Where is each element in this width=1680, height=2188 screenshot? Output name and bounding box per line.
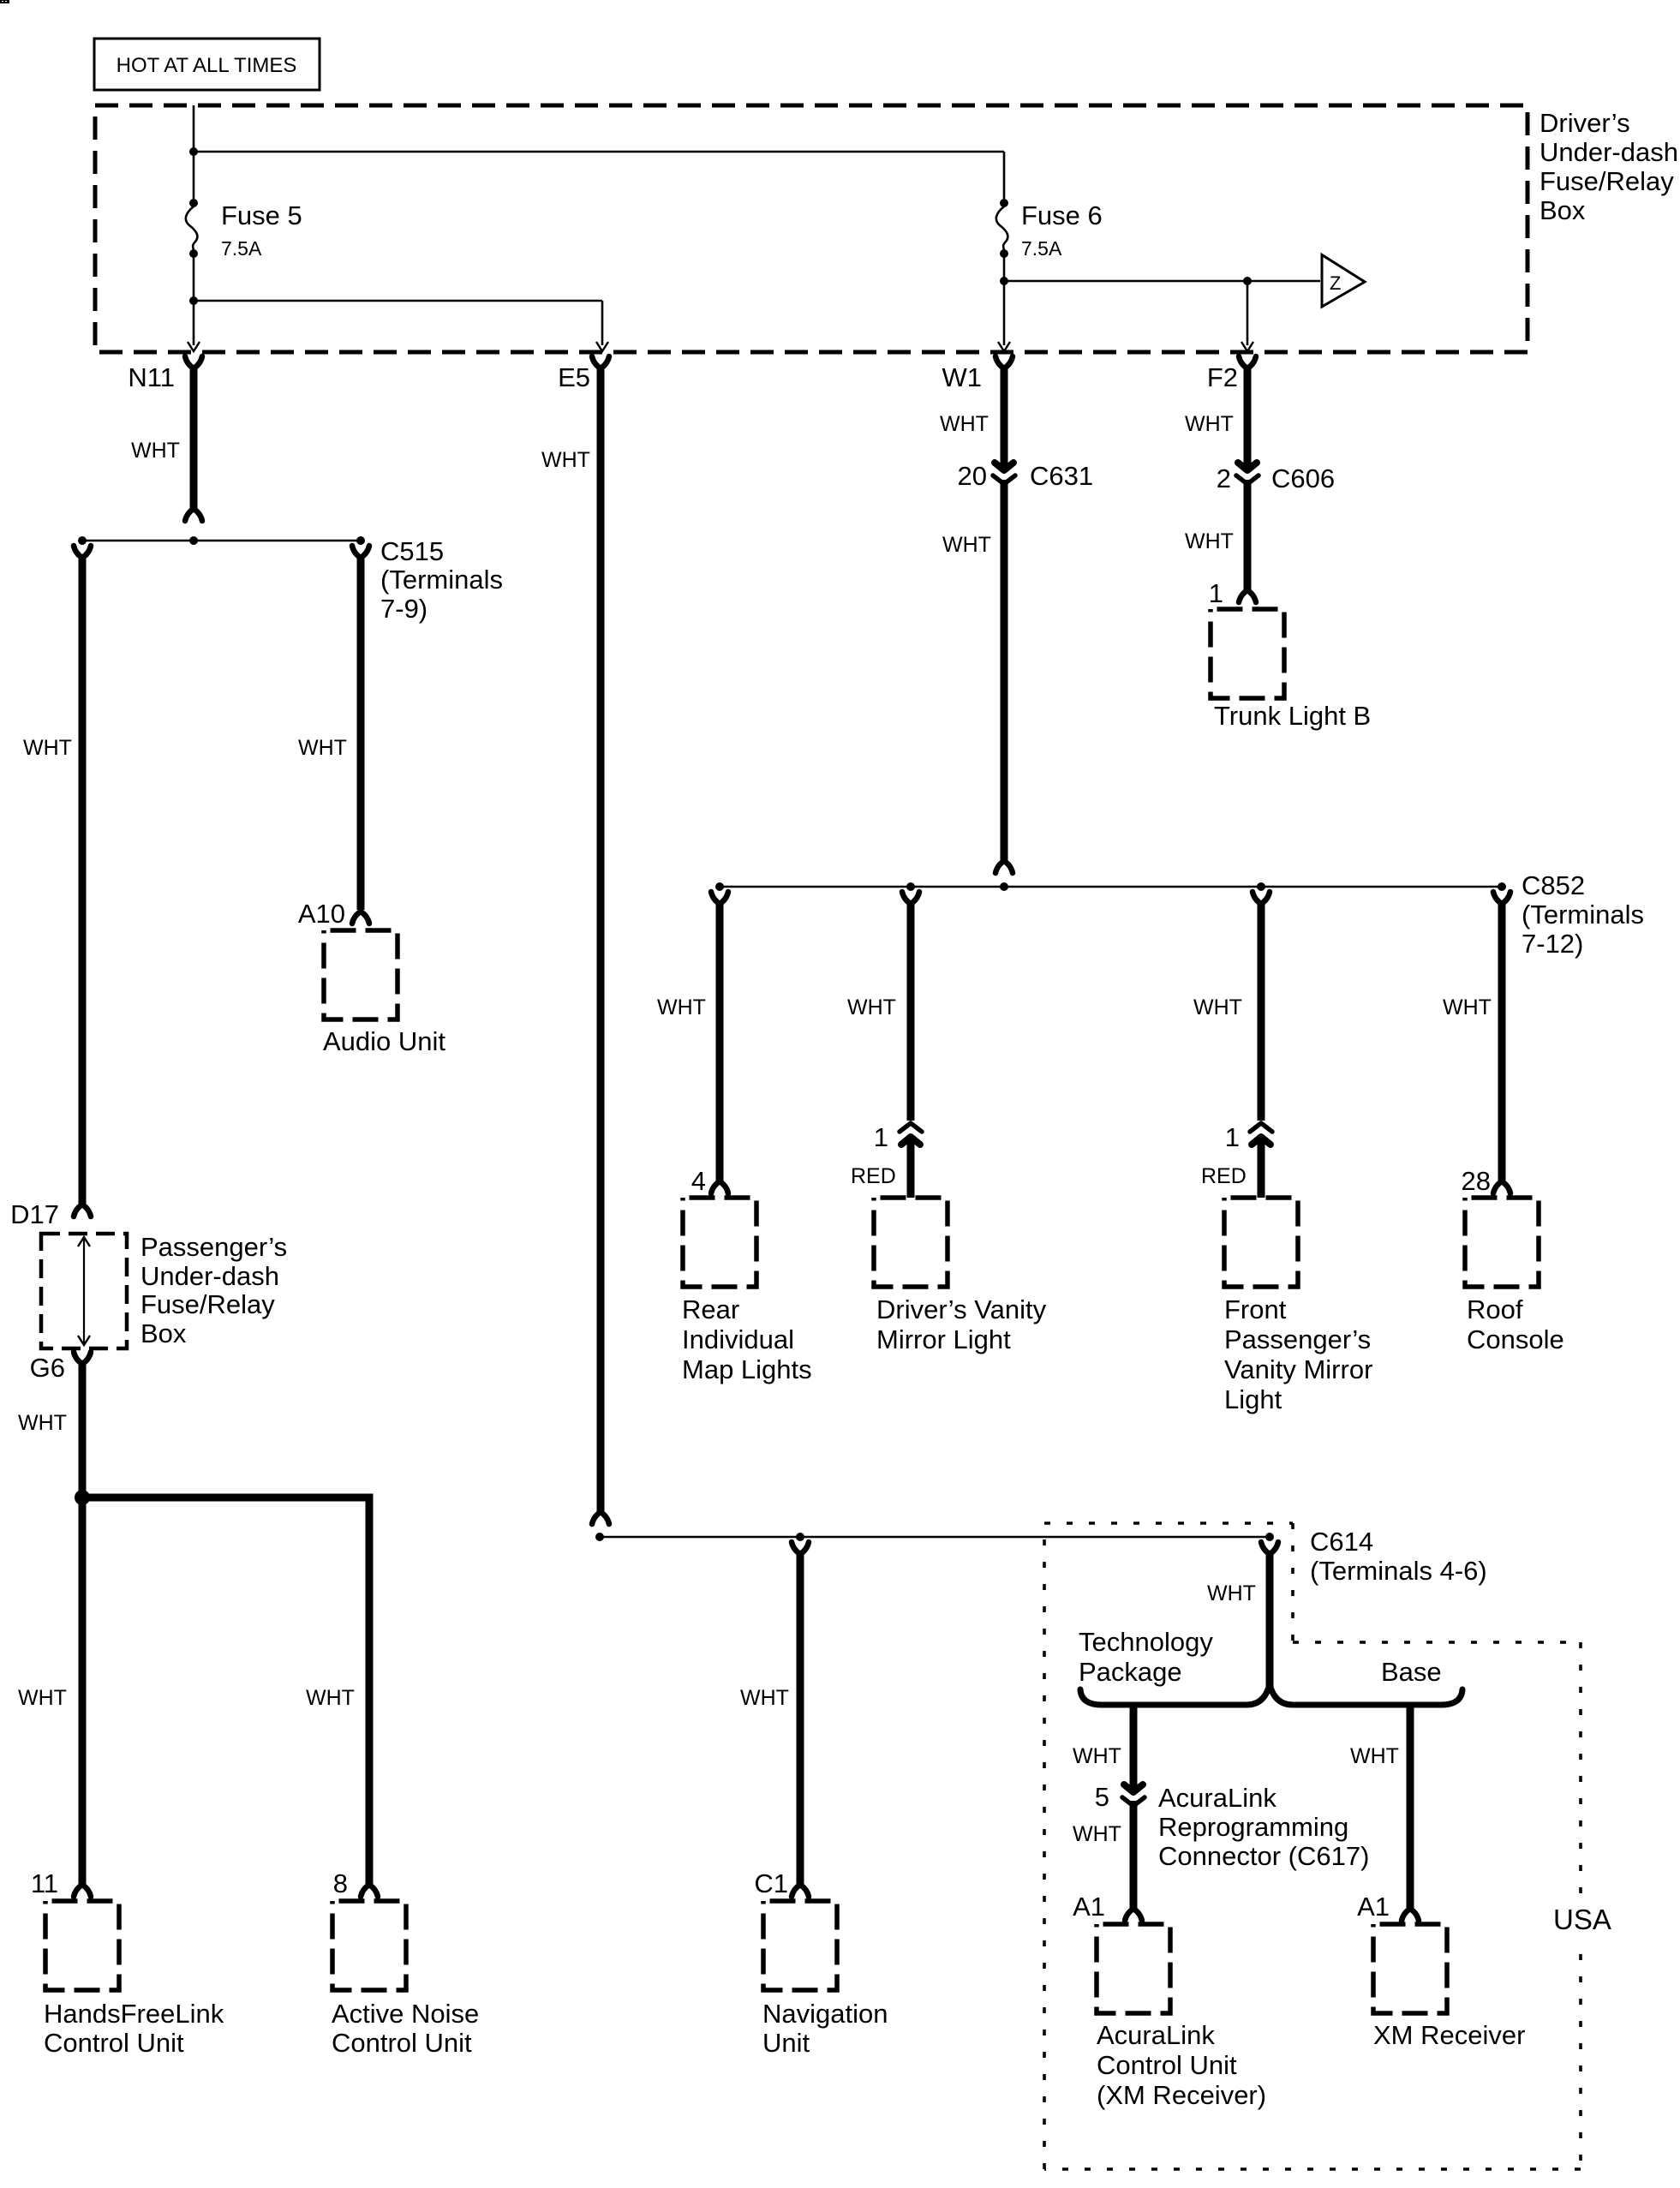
label: HOT AT ALL TIMES bbox=[94, 39, 320, 90]
node: rear map light branch bbox=[715, 882, 724, 891]
label: WHT (G6) bbox=[18, 1411, 67, 1435]
wire: junction over to Z arrow bbox=[1004, 280, 1320, 283]
wire: WHT to audio unit bbox=[352, 557, 369, 924]
node: driver vanity branch bbox=[906, 882, 915, 891]
node: C515 branch junction bbox=[356, 536, 365, 545]
svg-text:20: 20 bbox=[958, 461, 987, 491]
svg-text:Control Unit: Control Unit bbox=[44, 2028, 184, 2058]
node: N11 junction bbox=[189, 536, 198, 545]
wire: W1 WHT down to C631 bbox=[1001, 367, 1008, 468]
svg-text:7.5A: 7.5A bbox=[1021, 237, 1062, 260]
label: Driver's Under-dash Fuse/Relay Box bbox=[1540, 108, 1678, 225]
label: WHT (E5) bbox=[541, 448, 590, 472]
connector C614 (Terminals 4-6) bbox=[1261, 1527, 1487, 1586]
svg-text:Active Noise: Active Noise bbox=[332, 1999, 479, 2029]
svg-text:WHT: WHT bbox=[657, 995, 706, 1019]
svg-text:8: 8 bbox=[333, 1868, 348, 1898]
svg-text:Technology: Technology bbox=[1079, 1627, 1213, 1657]
wire: branch to active noise control bbox=[82, 1498, 378, 1897]
connector pin 1 (front vanity) bbox=[1225, 1122, 1272, 1152]
svg-text:1: 1 bbox=[1225, 1122, 1240, 1152]
wire: WHT down to D17 bbox=[74, 546, 91, 1217]
wire: bus feed down to Fuse 5 bbox=[193, 105, 195, 199]
label: WHT (active noise) bbox=[306, 1686, 355, 1710]
wire: down to E5 exit bbox=[596, 301, 608, 351]
node: front vanity branch bbox=[1257, 882, 1265, 891]
svg-text:WHT: WHT bbox=[1350, 1744, 1399, 1768]
wire: WHT to rear map lights bbox=[711, 892, 728, 1193]
wire: lower accessory bus bbox=[600, 1536, 1270, 1539]
wire: down to F2 exit bbox=[1241, 281, 1253, 351]
wire: interior lamp bus bbox=[716, 886, 1505, 888]
svg-text:WHT: WHT bbox=[298, 736, 347, 760]
connector C631 pin 20 bbox=[958, 461, 1094, 491]
component: AcuraLink Control Unit (XM Receiver) bbox=[1097, 1924, 1266, 2110]
svg-text:AcuraLink: AcuraLink bbox=[1158, 1783, 1276, 1813]
label: WHT (handsfreelink) bbox=[18, 1686, 67, 1710]
svg-text:C1: C1 bbox=[754, 1868, 788, 1898]
svg-text:WHT: WHT bbox=[1073, 1822, 1121, 1846]
Driver's under-dash fuse/relay box (dashed) bbox=[95, 105, 1528, 352]
svg-text:Under-dash: Under-dash bbox=[1540, 137, 1678, 167]
svg-text:HOT AT ALL TIMES: HOT AT ALL TIMES bbox=[117, 54, 297, 77]
node: junction to F2 and Z bbox=[1000, 277, 1008, 285]
svg-text:Mirror Light: Mirror Light bbox=[876, 1324, 1011, 1354]
svg-text:D17: D17 bbox=[10, 1199, 59, 1229]
pin A10 bbox=[298, 899, 345, 929]
svg-text:Map Lights: Map Lights bbox=[682, 1354, 812, 1384]
svg-text:WHT: WHT bbox=[740, 1686, 789, 1710]
svg-text:Driver’s: Driver’s bbox=[1540, 108, 1630, 138]
pin D17 bbox=[10, 1199, 59, 1229]
svg-text:WHT: WHT bbox=[18, 1411, 67, 1435]
node: E5 end junction bbox=[595, 1533, 604, 1541]
svg-text:Front: Front bbox=[1224, 1294, 1287, 1324]
svg-text:USA: USA bbox=[1553, 1904, 1611, 1935]
svg-text:Rear: Rear bbox=[682, 1294, 739, 1324]
svg-text:A1: A1 bbox=[1357, 1892, 1390, 1922]
component: XM Receiver bbox=[1373, 1924, 1525, 2050]
svg-text:Fuse/Relay: Fuse/Relay bbox=[140, 1289, 275, 1319]
label: WHT (C614) bbox=[1207, 1581, 1256, 1605]
wire: Fuse 6 output down to W1 bbox=[998, 254, 1010, 351]
component: HandsFreeLink Control Unit bbox=[44, 1901, 224, 2058]
svg-text:N11: N11 bbox=[128, 362, 175, 392]
svg-text:F2: F2 bbox=[1207, 362, 1238, 392]
svg-text:Z: Z bbox=[1330, 272, 1341, 294]
label: WHT (left branch) bbox=[23, 736, 72, 760]
component: Roof Console bbox=[1465, 1198, 1564, 1354]
connector C617 pin 5 (AcuraLink Reprogramming Connector) bbox=[1095, 1782, 1370, 1871]
svg-text:1: 1 bbox=[1209, 578, 1223, 608]
node: junction to active noise control bbox=[75, 1490, 90, 1505]
label: WHT (front vanity) bbox=[1193, 995, 1242, 1019]
svg-text:WHT: WHT bbox=[1207, 1581, 1256, 1605]
node: junction to E5 bbox=[189, 296, 198, 305]
svg-text:RED: RED bbox=[851, 1164, 896, 1188]
fuse F6 (Fuse 6 7.5A) bbox=[996, 199, 1103, 260]
component: Passenger's Under-dash Fuse/Relay Box bbox=[41, 1234, 127, 1348]
svg-text:Fuse 5: Fuse 5 bbox=[221, 200, 302, 230]
label: Passenger's Under-dash Fuse/Relay Box bbox=[140, 1232, 287, 1348]
node: roof console branch (C852) bbox=[1498, 882, 1506, 891]
svg-text:A10: A10 bbox=[298, 899, 345, 929]
svg-text:Audio Unit: Audio Unit bbox=[323, 1026, 445, 1056]
pin 8 bbox=[333, 1868, 348, 1898]
svg-text:Passenger’s: Passenger’s bbox=[1224, 1324, 1371, 1354]
wire: WHT to XM receiver bbox=[1402, 1705, 1419, 1921]
pin A1 (acuralink) bbox=[1073, 1892, 1105, 1922]
brace: harness split bbox=[1080, 1684, 1462, 1705]
node: bus junction at Fuse 5 column bbox=[189, 147, 198, 156]
svg-text:Individual: Individual bbox=[682, 1324, 794, 1354]
svg-text:Control Unit: Control Unit bbox=[332, 2028, 472, 2058]
wire: N11 WHT down bbox=[185, 367, 202, 521]
node: W1 feed junction bbox=[1000, 882, 1008, 891]
svg-text:C852: C852 bbox=[1522, 870, 1585, 900]
component: Active Noise Control Unit bbox=[332, 1901, 479, 2058]
label: WHT (xm) bbox=[1350, 1744, 1399, 1768]
label: WHT (navigation) bbox=[740, 1686, 789, 1710]
svg-text:Base: Base bbox=[1381, 1657, 1442, 1687]
svg-text:A1: A1 bbox=[1073, 1892, 1105, 1922]
svg-text:WHT: WHT bbox=[1443, 995, 1492, 1019]
label: Technology Package bbox=[1079, 1627, 1213, 1687]
svg-text:28: 28 bbox=[1462, 1166, 1491, 1196]
label: Base bbox=[1381, 1657, 1442, 1687]
svg-text:WHT: WHT bbox=[23, 736, 72, 760]
svg-text:Control Unit: Control Unit bbox=[1097, 2050, 1237, 2080]
svg-text:WHT: WHT bbox=[942, 533, 991, 557]
wire: Fuse 5 output down to N11 bbox=[188, 254, 200, 351]
wire: WHT to front vanity connector bbox=[1253, 892, 1270, 1121]
svg-text:Fuse/Relay: Fuse/Relay bbox=[1540, 166, 1674, 196]
svg-text:Trunk Light B: Trunk Light B bbox=[1214, 701, 1371, 731]
wire: WHT C631 down to lamp bus bbox=[995, 480, 1013, 873]
svg-text:AcuraLink: AcuraLink bbox=[1097, 2020, 1215, 2050]
label: WHT (rear map lights) bbox=[657, 995, 706, 1019]
label: WHT (driver vanity) bbox=[847, 995, 896, 1019]
svg-text:(Terminals: (Terminals bbox=[380, 565, 503, 595]
svg-text:HandsFreeLink: HandsFreeLink bbox=[44, 1999, 224, 2029]
svg-text:E5: E5 bbox=[558, 362, 590, 392]
wire: RED into front vanity light bbox=[1258, 1139, 1265, 1198]
svg-text:1: 1 bbox=[874, 1122, 888, 1152]
pin 28 bbox=[1462, 1166, 1491, 1196]
svg-text:7-9): 7-9) bbox=[380, 594, 427, 624]
label: WHT (N11) bbox=[131, 439, 180, 463]
svg-text:WHT: WHT bbox=[541, 448, 590, 472]
component: Driver's Vanity Mirror Light bbox=[874, 1198, 1047, 1354]
terminal W1 bbox=[942, 356, 1013, 392]
wire: WHT into acuralink control unit bbox=[1125, 1801, 1142, 1921]
svg-text:11: 11 bbox=[31, 1868, 58, 1898]
svg-text:(Terminals: (Terminals bbox=[1522, 900, 1644, 930]
svg-text:C606: C606 bbox=[1271, 463, 1335, 493]
wire: WHT to reprogramming connector bbox=[1130, 1705, 1138, 1789]
svg-text:(Terminals 4-6): (Terminals 4-6) bbox=[1310, 1556, 1487, 1586]
svg-text:C631: C631 bbox=[1030, 461, 1093, 491]
label: WHT (C515 branch) bbox=[298, 736, 347, 760]
connector C606 pin 2 bbox=[1217, 463, 1335, 493]
label: RED (front vanity) bbox=[1201, 1164, 1247, 1188]
svg-text:Light: Light bbox=[1224, 1384, 1282, 1414]
wire: junction over to E5 exit bbox=[194, 300, 602, 302]
svg-text:Fuse 6: Fuse 6 bbox=[1021, 200, 1103, 230]
pin 11 bbox=[31, 1868, 58, 1898]
wire: WHT to roof console bbox=[1493, 903, 1510, 1193]
label: WHT (W1 upper) bbox=[940, 412, 989, 436]
svg-text:7-12): 7-12) bbox=[1522, 929, 1583, 959]
pin C1 bbox=[754, 1868, 788, 1898]
svg-text:G6: G6 bbox=[30, 1353, 65, 1383]
wire: bus from Fuse 5 column to Fuse 6 column bbox=[194, 151, 1004, 153]
svg-text:Roof: Roof bbox=[1467, 1294, 1523, 1324]
wire: G6 WHT down bbox=[74, 1363, 91, 1897]
wire: WHT to driver vanity connector bbox=[902, 892, 919, 1121]
connector pin 1 (driver vanity) bbox=[874, 1122, 922, 1152]
svg-text:5: 5 bbox=[1095, 1782, 1109, 1812]
wire: WHT C606 down to trunk light bbox=[1239, 480, 1256, 602]
svg-text:2: 2 bbox=[1217, 463, 1231, 493]
svg-text:Console: Console bbox=[1467, 1324, 1564, 1354]
label: WHT (F2 lower) bbox=[1185, 529, 1234, 553]
svg-text:WHT: WHT bbox=[18, 1686, 67, 1710]
label: WHT (acuralink upper) bbox=[1073, 1744, 1121, 1768]
svg-text:Navigation: Navigation bbox=[762, 1999, 888, 2029]
svg-text:RED: RED bbox=[1201, 1164, 1247, 1188]
svg-text:Package: Package bbox=[1079, 1657, 1182, 1687]
label: WHT (acuralink lower) bbox=[1073, 1822, 1121, 1846]
terminal E5 bbox=[558, 356, 609, 392]
connector C852 (Terminals 7-12) bbox=[1493, 870, 1644, 959]
connector C515 (Terminals 7-9) bbox=[352, 536, 503, 624]
wire: E5 WHT down bbox=[592, 367, 609, 1524]
svg-text:Reprogramming: Reprogramming bbox=[1158, 1812, 1348, 1842]
label: USA bbox=[1547, 1898, 1616, 1938]
svg-text:Vanity Mirror: Vanity Mirror bbox=[1224, 1354, 1372, 1384]
label: WHT (W1 lower) bbox=[942, 533, 991, 557]
svg-text:XM Receiver: XM Receiver bbox=[1373, 2020, 1525, 2050]
svg-text:WHT: WHT bbox=[131, 439, 180, 463]
terminal N11 bbox=[128, 356, 202, 392]
page edge mark bbox=[0, 0, 9, 3]
fuse F5 (Fuse 5 7.5A) bbox=[186, 199, 302, 260]
svg-text:W1: W1 bbox=[942, 362, 983, 392]
wire: F2 WHT down to C606 bbox=[1244, 367, 1252, 468]
svg-text:Driver’s Vanity: Driver’s Vanity bbox=[876, 1294, 1047, 1324]
svg-text:WHT: WHT bbox=[940, 412, 989, 436]
wire: down to Fuse 6 bbox=[1003, 152, 1006, 199]
component: Rear Individual Map Lights bbox=[682, 1198, 812, 1384]
svg-text:C515: C515 bbox=[380, 536, 444, 566]
wire: WHT to navigation unit bbox=[792, 1542, 809, 1897]
pin G6 bbox=[30, 1352, 91, 1383]
svg-text:WHT: WHT bbox=[1193, 995, 1242, 1019]
pin A1 (xm) bbox=[1357, 1892, 1390, 1922]
label: RED (driver vanity) bbox=[851, 1164, 896, 1188]
wire: N11 junction bus bbox=[82, 540, 361, 542]
svg-text:Unit: Unit bbox=[762, 2028, 810, 2058]
svg-text:4: 4 bbox=[691, 1166, 706, 1196]
component: Trunk Light B bbox=[1211, 609, 1371, 731]
svg-text:(XM Receiver): (XM Receiver) bbox=[1097, 2080, 1266, 2110]
svg-text:WHT: WHT bbox=[306, 1686, 355, 1710]
label: WHT (roof console) bbox=[1443, 995, 1492, 1019]
pin 1 (trunk light) bbox=[1209, 578, 1223, 608]
node: C614 junction bbox=[1265, 1533, 1274, 1541]
component: Front Passenger's Vanity Mirror Light bbox=[1224, 1198, 1372, 1414]
pin 4 bbox=[691, 1166, 706, 1196]
svg-text:WHT: WHT bbox=[1073, 1744, 1121, 1768]
svg-text:Box: Box bbox=[1540, 195, 1586, 225]
node: left branch junction bbox=[78, 536, 87, 545]
wire: RED into driver vanity light bbox=[907, 1139, 915, 1198]
label: WHT (F2 upper) bbox=[1185, 412, 1234, 436]
svg-text:Passenger’s: Passenger’s bbox=[140, 1232, 287, 1262]
svg-text:WHT: WHT bbox=[1185, 529, 1234, 553]
svg-text:Connector (C617): Connector (C617) bbox=[1158, 1841, 1369, 1871]
svg-text:WHT: WHT bbox=[1185, 412, 1234, 436]
svg-text:7.5A: 7.5A bbox=[221, 237, 262, 260]
svg-text:Under-dash: Under-dash bbox=[140, 1261, 279, 1291]
node: junction at F2 column bbox=[1243, 277, 1252, 285]
wire: WHT C614 down to split bbox=[1266, 1553, 1274, 1689]
component: Navigation Unit bbox=[762, 1901, 888, 2058]
svg-text:Box: Box bbox=[140, 1318, 187, 1348]
component: Audio Unit bbox=[323, 930, 445, 1056]
symbol: off-page connector Z bbox=[1322, 255, 1365, 308]
svg-text:C614: C614 bbox=[1310, 1527, 1373, 1557]
terminal F2 bbox=[1207, 356, 1256, 392]
svg-text:WHT: WHT bbox=[847, 995, 896, 1019]
node: navigation branch junction bbox=[796, 1533, 804, 1541]
region border: Technology Package / Base (USA) bbox=[1044, 1523, 1581, 2169]
